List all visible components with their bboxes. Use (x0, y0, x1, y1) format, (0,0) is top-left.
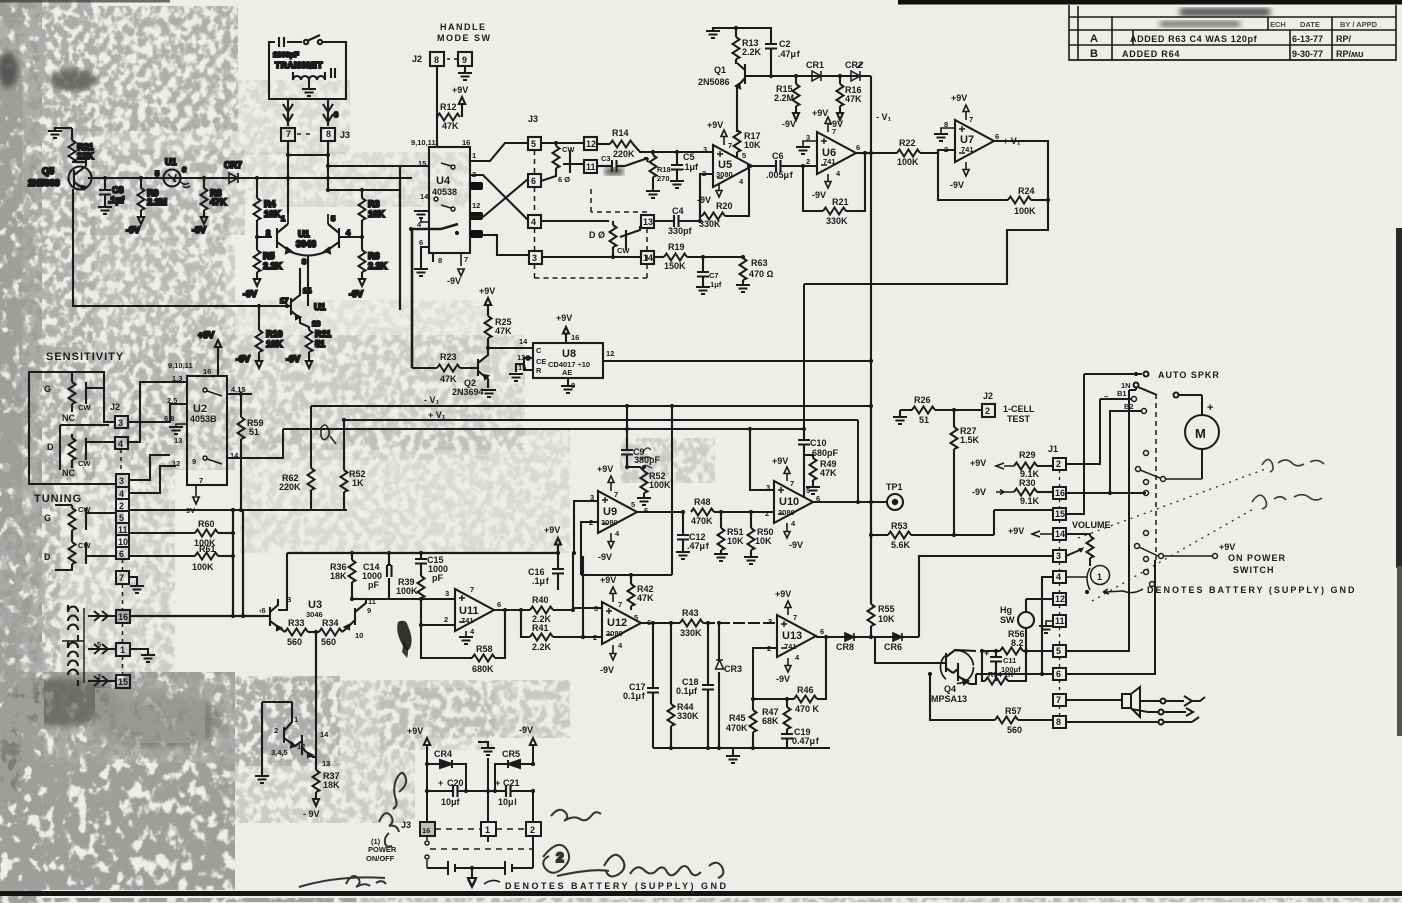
resistor R4 (254, 178, 273, 237)
ground bottom rail (732, 748, 734, 755)
svg-text:D Ø: D Ø (589, 230, 605, 240)
resistor R47 (784, 699, 791, 734)
svg-text:D: D (47, 442, 54, 452)
svg-text:-9V: -9V (972, 487, 986, 497)
svg-text:-9V: -9V (126, 225, 140, 235)
svg-text:R55: R55 (878, 604, 895, 614)
connector J3 box6 (528, 174, 541, 187)
svg-text:3046: 3046 (306, 610, 323, 619)
svg-text:150K: 150K (664, 261, 686, 271)
svg-text:R41: R41 (532, 623, 549, 633)
svg-text:R48: R48 (694, 497, 711, 507)
capacitor C14 (387, 553, 392, 599)
svg-text:J2: J2 (110, 402, 120, 412)
connector box11 (584, 160, 597, 173)
resistor R62 (308, 468, 315, 510)
svg-text:7: 7 (614, 490, 618, 499)
box11 ground (1046, 621, 1053, 625)
resistor R6 (359, 237, 366, 286)
capacitor C6 (776, 160, 781, 172)
battery gnd arrow (468, 868, 476, 887)
U9 output wire (637, 511, 683, 513)
svg-text:J3: J3 (528, 114, 538, 124)
U9 +9V (608, 476, 614, 491)
svg-text:.47μ f: .47μ f (687, 541, 710, 551)
svg-text:380pF: 380pF (634, 455, 661, 465)
svg-text:47K: 47K (820, 468, 837, 478)
svg-text:9: 9 (192, 457, 196, 466)
resistor R34 (319, 629, 342, 636)
resistor R50 (748, 512, 755, 556)
svg-text:14: 14 (303, 286, 312, 295)
capacitor C10 (798, 429, 813, 497)
svg-text:18K: 18K (323, 780, 340, 790)
svg-text:Q5: Q5 (42, 166, 54, 176)
svg-text:12: 12 (1055, 594, 1065, 604)
resistor R54 (982, 651, 1026, 685)
svg-text:47K: 47K (210, 197, 227, 207)
svg-text:560: 560 (1007, 725, 1022, 735)
IC U8 CD4017 (516, 327, 603, 385)
svg-text:CR2: CR2 (845, 60, 863, 70)
resistor R14 (597, 143, 610, 145)
svg-text:6: 6 (820, 627, 824, 636)
svg-text:B: B (1090, 48, 1098, 60)
svg-text:U12: U12 (607, 617, 627, 629)
svg-text:R33: R33 (288, 618, 305, 628)
wires from boxes right (129, 455, 243, 585)
denotes battery arrow (1103, 589, 1143, 594)
resistor R55 (868, 604, 875, 637)
svg-text:8: 8 (1056, 717, 1061, 727)
-9V U7 (963, 162, 969, 176)
svg-text:2: 2 (765, 509, 769, 518)
resistor R15 (795, 76, 797, 84)
wire box3 row extension to R63 (713, 256, 743, 258)
svg-text:14: 14 (320, 730, 329, 739)
svg-text:5: 5 (806, 486, 810, 495)
svg-text:R18: R18 (657, 165, 671, 174)
tuning pot G (55, 505, 72, 508)
svg-text:CR5: CR5 (502, 749, 520, 759)
svg-text:-9V: -9V (776, 674, 790, 684)
svg-text:C11: C11 (1003, 656, 1016, 665)
svg-text:Q1: Q1 (714, 65, 726, 75)
svg-text:CE: CE (536, 357, 546, 366)
svg-text:51: 51 (315, 339, 325, 349)
svg-text:CR3: CR3 (724, 664, 742, 674)
svg-text:AUTO SPKR: AUTO SPKR (1158, 370, 1220, 380)
svg-text:100K: 100K (192, 562, 214, 572)
connector J2 box3 (115, 416, 128, 428)
svg-text:+ V₁: + V₁ (428, 410, 446, 420)
svg-text:47K: 47K (442, 121, 459, 131)
wire box16 to U3 (130, 615, 265, 617)
svg-text:ON POWER: ON POWER (1228, 553, 1286, 563)
svg-text:1K: 1K (352, 478, 364, 488)
svg-text:5: 5 (634, 613, 638, 622)
svg-text:10: 10 (118, 537, 128, 547)
svg-text:R: R (536, 366, 542, 375)
svg-text:B1: B1 (1117, 389, 1127, 398)
pot D sens (69, 438, 76, 460)
wire U4 pin2 cross to box4 (470, 175, 528, 220)
svg-text:RP/: RP/ (1336, 34, 1352, 44)
dark streaks left edge (0, 0, 30, 800)
svg-text:5.6K: 5.6K (891, 540, 911, 550)
svg-text:5: 5 (631, 500, 635, 509)
U4 pin15 black pad (470, 230, 483, 238)
svg-text:C20: C20 (447, 778, 464, 788)
U8 pin8 ground (567, 378, 569, 385)
svg-text:-9V: -9V (447, 276, 461, 286)
dashed riser x1156 (1155, 394, 1157, 560)
svg-text:R11: R11 (315, 329, 331, 339)
svg-text:C7: C7 (709, 271, 719, 280)
svg-text:10K: 10K (368, 209, 385, 219)
svg-text:12: 12 (586, 139, 596, 149)
svg-text:+: + (495, 778, 500, 788)
svg-text:2N5086: 2N5086 (698, 77, 730, 87)
svg-text:CW: CW (562, 145, 575, 154)
resistor R17 (734, 130, 741, 152)
svg-text:C10: C10 (810, 438, 827, 448)
svg-text:330K: 330K (826, 216, 848, 226)
svg-text:‹6: ‹6 (259, 606, 266, 615)
resistor R45 (750, 699, 757, 748)
svg-text:3080: 3080 (606, 629, 623, 638)
wire pin3 row y599 (353, 598, 455, 600)
-9V U5 (716, 183, 722, 197)
svg-text:+9V: +9V (600, 575, 616, 585)
svg-text:6-13-77: 6-13-77 (1292, 34, 1323, 44)
ground in transmit (308, 80, 310, 88)
svg-text:10: 10 (355, 631, 363, 640)
wire Q4 base (875, 637, 940, 663)
svg-text:47K: 47K (440, 374, 457, 384)
connector J3 pin 8 (321, 128, 335, 141)
connector J2 box2 (982, 404, 995, 417)
svg-text:3: 3 (768, 617, 772, 626)
resistor R26 (912, 407, 935, 414)
svg-text:7: 7 (119, 573, 124, 583)
svg-text:0.1μ f: 0.1μ f (623, 691, 646, 701)
U10 +9V (784, 467, 790, 481)
svg-text:-9V: -9V (782, 119, 796, 129)
svg-text:CR7: CR7 (224, 160, 242, 170)
svg-text:16: 16 (203, 367, 211, 376)
svg-text:741: 741 (784, 642, 797, 651)
svg-text:M: M (1195, 426, 1206, 441)
-V1 vertical trunk (870, 76, 872, 404)
resistor R57 (930, 674, 1053, 724)
svg-text:6: 6 (856, 143, 860, 152)
svg-text:TUNING: TUNING (34, 493, 82, 505)
svg-text:BY / APPD: BY / APPD (1340, 20, 1378, 29)
handwriting red (379, 773, 406, 847)
svg-text:6: 6 (119, 549, 124, 559)
svg-text:13: 13 (517, 353, 525, 362)
connector J2 pin 8 (430, 52, 444, 66)
svg-text:7: 7 (286, 129, 291, 139)
svg-text:4: 4 (118, 439, 123, 449)
svg-text:10μf: 10μf (441, 797, 461, 807)
resistor R63 (740, 257, 747, 284)
svg-text:6: 6 (644, 506, 648, 515)
svg-text:DENOTES BATTERY (SUPPLY) GND: DENOTES BATTERY (SUPPLY) GND (1147, 585, 1357, 595)
U13 pin2 feedback loop (753, 648, 794, 699)
resistor R31 (55, 128, 86, 162)
svg-text:R6: R6 (368, 251, 380, 261)
svg-text:+9V: +9V (479, 286, 495, 296)
wire y575 U9 fb (581, 406, 672, 575)
vertical drops to J3 (427, 764, 533, 822)
U2 switch arms (203, 388, 222, 464)
box outline mid left (278, 553, 287, 610)
svg-text:R21: R21 (832, 197, 849, 207)
svg-text:U1: U1 (165, 157, 177, 167)
wire U4 pin15 to box3 (483, 235, 529, 255)
svg-text:330K: 330K (677, 711, 699, 721)
svg-text:2.2K: 2.2K (368, 261, 388, 271)
svg-text:680pF: 680pF (812, 448, 839, 458)
dashed gang lines (535, 150, 648, 278)
svg-text:CW: CW (617, 246, 630, 255)
connector box15 (116, 675, 130, 688)
svg-text:CR8: CR8 (836, 642, 854, 652)
svg-text:10K: 10K (264, 209, 281, 219)
svg-text:3: 3 (1056, 551, 1061, 561)
svg-text:3080: 3080 (716, 170, 733, 179)
svg-text:560: 560 (287, 637, 302, 647)
svg-text:16: 16 (571, 333, 579, 342)
svg-text:R23: R23 (440, 352, 457, 362)
svg-text:6: 6 (995, 132, 999, 141)
wire U2 pin14 to +V bus corner (227, 457, 283, 459)
svg-text:0.47μ f: 0.47μ f (792, 736, 820, 746)
arrow -9V R9 (138, 210, 144, 224)
svg-text:220K: 220K (613, 149, 635, 159)
connector J3 box2 (526, 822, 541, 836)
antenna arrows (283, 99, 293, 126)
dashed switch gang (430, 848, 533, 850)
U8 pin16 +9V (563, 327, 569, 343)
wire U5 in2 + feedback R20 (700, 174, 713, 216)
pot R18 wiper arrow (625, 158, 648, 166)
transistor Q5 (69, 160, 92, 190)
U13 out wire (816, 636, 919, 638)
svg-text:2: 2 (119, 501, 124, 511)
svg-text:J2: J2 (983, 391, 993, 401)
svg-text:12: 12 (297, 742, 305, 751)
dashed between boxes (435, 828, 526, 830)
svg-text:U10: U10 (779, 496, 799, 508)
wires from 7/8 to bus (288, 141, 328, 214)
connector box13 (641, 215, 654, 228)
capacitor C7 (702, 257, 704, 268)
svg-text:15: 15 (518, 363, 526, 372)
svg-text:3: 3 (119, 476, 124, 486)
svg-text:8: 8 (571, 381, 575, 390)
svg-text:ON/OFF: ON/OFF (366, 854, 395, 863)
U12 +9V (610, 587, 616, 602)
chain x653 C17 (647, 686, 659, 748)
wire x653 drop (652, 623, 654, 686)
diode CR5 (495, 760, 533, 791)
svg-text:+9V: +9V (775, 589, 791, 599)
arrows into 15 (88, 676, 116, 686)
svg-text:POWER: POWER (368, 845, 397, 854)
svg-text:C2: C2 (779, 39, 791, 49)
resistor R59 (238, 394, 245, 510)
resistor R61 (195, 553, 218, 560)
dashed gang J1 (1059, 470, 1061, 716)
svg-text:15: 15 (418, 159, 426, 168)
svg-text:100K: 100K (1014, 206, 1036, 216)
svg-text:+9V: +9V (597, 464, 613, 474)
capacitor C9 (621, 406, 644, 471)
bus y553 (287, 552, 558, 554)
svg-text:R45: R45 (729, 713, 746, 723)
U10 input wires (714, 429, 774, 512)
svg-text:Hg: Hg (1000, 605, 1012, 615)
svg-text:U8: U8 (562, 348, 576, 360)
gang wire R62/R52 bottom (243, 509, 347, 511)
scan noise: top-left block (28, 6, 525, 690)
svg-text:470K: 470K (691, 516, 713, 526)
IC U4 40538 (429, 147, 470, 253)
svg-text:1-CELL: 1-CELL (1003, 404, 1035, 414)
connector J3 box1 (481, 822, 496, 836)
svg-text:.1μf: .1μf (108, 195, 125, 205)
svg-text:7: 7 (728, 141, 732, 150)
svg-text:+9V: +9V (407, 726, 423, 736)
U4 pin7 arrow -9V (458, 253, 464, 276)
diode CR2 (851, 62, 863, 81)
svg-text:CW: CW (78, 505, 91, 514)
capacitor C3 (597, 165, 612, 167)
op-amp U7 (955, 120, 994, 162)
capacitor C11 (990, 651, 1002, 681)
capacitor C4 (654, 220, 674, 222)
svg-text:11: 11 (118, 525, 128, 535)
wire U6 out (856, 152, 871, 154)
transmit box (269, 42, 346, 99)
svg-text:3046: 3046 (296, 239, 316, 249)
+9V U5 (721, 130, 727, 145)
svg-text:6,8: 6,8 (164, 414, 174, 423)
capacitor 1300pF in box top (279, 37, 302, 47)
U11 out wire (494, 609, 530, 611)
svg-text:2.2M: 2.2M (147, 197, 167, 207)
svg-text:R26: R26 (914, 395, 931, 405)
resistor R36 (349, 553, 356, 599)
resistor R8 (201, 178, 208, 210)
auto spkr switch (1084, 372, 1202, 416)
+9V U6 (825, 117, 831, 132)
svg-text:+9V: +9V (1219, 542, 1235, 552)
resistor R41 (521, 610, 583, 641)
connector J3 box16 (420, 822, 435, 836)
svg-text:9.1K: 9.1K (1020, 496, 1040, 506)
svg-text:7: 7 (470, 585, 474, 594)
svg-text:13: 13 (643, 217, 653, 227)
connector J2 box4 (115, 437, 128, 449)
svg-text:-9V: -9V (519, 725, 533, 735)
chain x719 CR3 (716, 623, 724, 748)
svg-text:+9V: +9V (707, 120, 723, 130)
scan noise: misc mid speckle (95, 80, 715, 750)
svg-text:1: 1 (1097, 572, 1102, 582)
scan noise: bottom-left big blotch (0, 672, 570, 890)
+9V supply to U2 (215, 340, 221, 376)
resistor R11 (306, 330, 313, 368)
svg-text:R54 1K: R54 1K (988, 670, 1014, 679)
U12 input wires (573, 608, 602, 637)
svg-text:TEST: TEST (1007, 414, 1031, 424)
svg-text:51: 51 (919, 415, 929, 425)
svg-text:1300pF: 1300pF (273, 50, 299, 59)
svg-text:C3: C3 (601, 154, 611, 163)
svg-text:ECH: ECH (1270, 20, 1286, 29)
svg-text:47K: 47K (845, 94, 862, 104)
svg-text:R61: R61 (199, 544, 216, 554)
svg-text:SWITCH: SWITCH (1233, 565, 1275, 575)
svg-text:10K: 10K (266, 339, 283, 349)
connector J2 pin 9 (458, 52, 472, 66)
U4 switch arms inside (434, 163, 455, 211)
svg-text:−: − (1104, 392, 1109, 401)
feedback R58 (421, 610, 505, 662)
op-amp U12 (602, 602, 641, 644)
svg-text:560: 560 (321, 637, 336, 647)
svg-text:R14: R14 (612, 128, 629, 138)
svg-text:+9V: +9V (556, 313, 572, 323)
svg-text:-9V: -9V (236, 354, 250, 364)
wire box3 to box14 (542, 256, 641, 258)
svg-text:U1: U1 (298, 229, 310, 239)
wire main bus y178 (88, 177, 412, 179)
svg-text:C5: C5 (683, 152, 695, 162)
svg-text:DATE: DATE (1300, 20, 1320, 29)
svg-text:6: 6 (531, 176, 536, 186)
svg-text:2.2K: 2.2K (532, 642, 552, 652)
svg-text:G: G (44, 513, 51, 523)
svg-text:-9V: -9V (349, 289, 363, 299)
connector column boxes (116, 474, 129, 584)
svg-text:+: + (1207, 402, 1213, 414)
svg-text:13: 13 (312, 319, 320, 328)
diode CR7 (229, 173, 238, 183)
pot D phase (610, 225, 617, 247)
resistor R16 (839, 76, 841, 84)
capacitor C19 (781, 734, 830, 748)
resistor R51 (718, 512, 725, 553)
handwriting blue (299, 876, 386, 887)
svg-text:R30: R30 (1019, 478, 1036, 488)
capacitor C16 (552, 538, 564, 590)
diode CR1 (812, 71, 821, 81)
U4 pins 6,8 to ground (421, 247, 433, 268)
op-amp U11 (455, 589, 494, 631)
svg-text:9: 9 (367, 606, 371, 615)
wire U3 right collector to R36 row (353, 598, 366, 600)
wire box3 to U2 (128, 404, 187, 422)
svg-text:-9V: -9V (950, 180, 964, 190)
arrows into 16 (88, 611, 116, 621)
svg-text:-9V: -9V (286, 354, 300, 364)
trunk x233 (232, 510, 234, 616)
